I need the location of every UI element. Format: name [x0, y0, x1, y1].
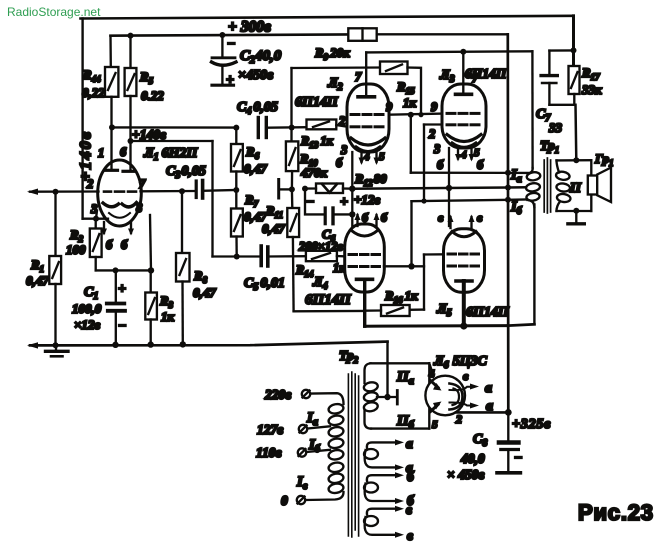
center tap bar	[396, 391, 399, 405]
junction dot R15 drop	[418, 112, 423, 117]
Tr2 primary loop 2	[328, 414, 344, 426]
junction dot Ia tap	[505, 170, 511, 176]
wire R12 left drop	[305, 189, 324, 215]
wire L6 output y=412.4	[456, 411, 508, 414]
svg-text:0,47: 0,47	[193, 285, 216, 300]
junction dot R8 top	[179, 188, 185, 194]
wire L1 cathode corner	[83, 218, 108, 220]
junction dot speaker bottom	[573, 208, 579, 214]
svg-text:+: +	[226, 73, 234, 88]
svg-text:8: 8	[136, 201, 143, 215]
svg-text:0,22: 0,22	[82, 85, 105, 100]
wire L5 grid branch x=424	[423, 255, 425, 310]
junction dot C6 right	[349, 211, 355, 217]
svg-text:33: 33	[548, 120, 563, 135]
L4 anode bar	[357, 277, 373, 281]
svg-text:5: 5	[432, 419, 438, 431]
svg-text:−: −	[118, 319, 126, 334]
Tr2 heater group v bottom arrow	[365, 517, 404, 538]
svg-text:0: 0	[281, 493, 288, 508]
Tr2 HV bottom lead	[365, 410, 372, 429]
wire speaker top y=160.3	[557, 159, 592, 162]
wire speaker right bottom	[590, 195, 592, 212]
L1 pin4 heater arrow	[101, 222, 107, 236]
L4 heater arrow b1	[355, 213, 361, 227]
wire anode bus y=326	[365, 324, 508, 328]
capacitor C2 electrolytic	[212, 35, 237, 85]
L3 anode bar	[456, 52, 472, 95]
junction dot +325v	[505, 409, 512, 416]
tube L3 envelope	[442, 84, 486, 148]
capacitor C7	[541, 51, 557, 105]
L2 grid1 dashes	[351, 113, 383, 116]
resistor R1	[49, 192, 61, 345]
junction dot R17 top node	[571, 47, 577, 53]
svg-text:200×12в: 200×12в	[298, 240, 343, 254]
resistor R5	[125, 36, 137, 141]
svg-text:40,0: 40,0	[460, 451, 485, 466]
Tr1 primary top lead curve	[528, 168, 533, 173]
resistor R6	[231, 128, 243, 190]
svg-text:127в: 127в	[257, 422, 283, 437]
junction dot Tr1 mid tap	[505, 185, 511, 191]
wire L5 grid feed y=254.5	[424, 253, 445, 256]
svg-text:в: в	[477, 211, 483, 225]
junction dot L2 cathode drop	[349, 186, 355, 192]
junction dot R3 top	[148, 267, 154, 273]
svg-text:в: в	[463, 369, 469, 383]
junction dot R10/R11	[289, 186, 295, 192]
L6 heater out bottom arrow	[450, 402, 480, 408]
wire cathode rail y=188	[352, 187, 527, 188]
svg-text:100: 100	[66, 242, 86, 257]
Tr2 heater group b top arrow	[367, 472, 404, 481]
capacitor C8 electrolytic	[497, 412, 520, 472]
capacitor C5	[261, 246, 306, 266]
resistor R2	[90, 219, 102, 271]
wire speaker right top	[590, 160, 592, 176]
Tr2 primary loop 4	[328, 437, 344, 449]
Tr1 secondary coil loop 2	[556, 183, 571, 193]
L2 heater arrow 4	[359, 150, 365, 165]
L2 grid2 dashes	[351, 125, 383, 128]
L4 heater arrow b2	[374, 213, 380, 227]
Tr2 primary loop 1	[328, 403, 344, 415]
wire L2 cathode drop x=352.3	[351, 152, 353, 236]
wire C5 coupling y=256.5	[213, 255, 260, 257]
junction dot L3 anode	[460, 49, 466, 55]
Tr1 primary coil loop 3	[526, 192, 540, 201]
wire Ib drop to L4 grid x=411.5	[410, 201, 412, 266]
svg-text:а: а	[406, 436, 413, 451]
svg-text:0,47: 0,47	[244, 161, 267, 176]
svg-text:470к: 470к	[300, 165, 328, 180]
L4 anode stem	[363, 279, 366, 326]
svg-text:а: а	[485, 381, 492, 396]
svg-text:C30,05: C30,05	[166, 164, 206, 181]
Tr2 primary loop 3	[328, 426, 344, 438]
svg-text:II: II	[569, 181, 581, 196]
Tr2 heater loop b	[364, 483, 378, 493]
resistor R8	[176, 191, 190, 344]
svg-text:б: б	[381, 211, 388, 225]
tube L4 envelope	[345, 224, 385, 292]
svg-text:+140в: +140в	[132, 127, 166, 142]
Tr1 secondary coil loop 1	[556, 171, 571, 181]
L2 heater arrow 5	[374, 150, 380, 165]
svg-text:7: 7	[139, 177, 146, 191]
wire cathode stub to tube	[96, 211, 97, 219]
junction dot R12 left	[302, 186, 308, 192]
svg-text:б: б	[437, 158, 444, 172]
Tr2 primary loop 6	[328, 461, 344, 473]
wire input grid line y=191.5	[30, 190, 99, 193]
Tr1 primary bottom lead curve	[528, 200, 535, 207]
svg-text:1: 1	[98, 146, 104, 160]
wire Ia drop x=410.8	[410, 115, 412, 173]
capacitor C4	[258, 118, 266, 138]
wire screen line y=114.5	[389, 114, 443, 115]
Tr2 heater group a top arrow	[367, 439, 404, 448]
L5 grid1 dashes	[448, 253, 479, 256]
junction dot C1 top	[113, 267, 119, 273]
wire rect box right x=429.3	[428, 363, 430, 428]
L3 cathode arc	[447, 135, 481, 142]
ground symbol at rail	[46, 345, 69, 356]
Tr2 heater group b bottom arrow	[365, 484, 404, 505]
svg-text:220в: 220в	[264, 387, 291, 402]
junction dot Ia drop	[408, 112, 414, 118]
terminal 0	[297, 492, 344, 504]
L6 filament arc outer	[450, 384, 463, 410]
wire L3 grid to corner y=124.5	[424, 123, 443, 125]
junction dot R1 bottom	[53, 342, 59, 348]
svg-text:+: +	[118, 282, 126, 297]
wire pin4 lead	[429, 363, 433, 376]
L3 heater arrow 4	[455, 147, 461, 162]
tube L5 envelope	[444, 229, 485, 293]
wire R9 right to B+ vertical	[377, 33, 508, 35]
terminal 110v tap	[298, 448, 330, 456]
capacitor C6	[325, 208, 352, 224]
Tr2 primary loop 7	[328, 472, 344, 484]
svg-text:6П14П: 6П14П	[466, 305, 510, 320]
resistor R3	[145, 270, 157, 344]
Tr2 primary loop 5	[328, 449, 344, 461]
L5 grid2 dashes	[448, 265, 479, 268]
junction dot pin1 top	[109, 124, 115, 130]
junction dot L3 cathode drop	[446, 185, 452, 191]
wire +140V stub y=141	[131, 140, 213, 142]
junction dot speaker top	[573, 157, 579, 163]
wire R16 riser y=309.6	[410, 308, 424, 311]
L1 pin5 heater arrow	[128, 222, 134, 236]
svg-text:7: 7	[355, 70, 362, 84]
wire HV center tap	[377, 396, 397, 398]
svg-text:0,47: 0,47	[262, 221, 285, 236]
svg-text:3: 3	[340, 143, 347, 157]
junction dot cathode node	[93, 216, 99, 222]
svg-text:+140в: +140в	[78, 130, 95, 181]
L2 anode bar	[358, 52, 375, 96]
svg-text:б: б	[121, 238, 128, 252]
L1 cathode arcs	[103, 203, 137, 207]
resistor R15	[380, 62, 421, 115]
svg-text:6П14П: 6П14П	[305, 292, 352, 308]
Tr1 primary coil loop 2	[526, 182, 541, 192]
wire R17 bottom to Tr1	[574, 105, 577, 161]
wire top feedback line y=17	[81, 16, 574, 19]
svg-text:+: +	[340, 195, 348, 210]
svg-text:R920к: R920к	[314, 45, 350, 62]
svg-text:+325в: +325в	[512, 417, 551, 432]
junction dot L3 grid drop end	[421, 198, 426, 203]
svg-text:в: в	[407, 528, 413, 543]
wire rect box bottom y=428.6	[371, 427, 429, 429]
junction dot R6 top	[233, 125, 239, 131]
svg-text:×12в: ×12в	[74, 317, 100, 332]
junction dot R1 top	[53, 189, 59, 195]
wire R10 top feed	[290, 68, 292, 141]
L6 anode arrow bottom lead	[431, 405, 439, 412]
svg-text:+12в: +12в	[354, 192, 380, 207]
wire Ib line y=200	[412, 200, 528, 202]
svg-text:9: 9	[431, 100, 438, 114]
Tr2 HV loop IIa-2	[363, 391, 378, 402]
svg-text:б: б	[362, 211, 369, 225]
L5 anode stem	[462, 281, 466, 326]
wire B+ long vertical x=508	[506, 34, 509, 412]
wire grid-B to C3	[141, 190, 195, 193]
wire phase-2 drop x=212.5	[211, 141, 213, 257]
svg-text:б: б	[477, 158, 484, 172]
L1 anode B bar	[123, 141, 135, 171]
svg-text:в: в	[406, 502, 412, 517]
junction dot L4 grid node	[408, 263, 414, 269]
wire Ia line y=172.7	[411, 172, 528, 175]
junction dot L5 anode	[460, 322, 467, 329]
resistor R13	[307, 120, 348, 130]
svg-text:б: б	[106, 238, 113, 252]
wire speaker bottom y=211	[557, 210, 592, 212]
svg-text:33к: 33к	[581, 82, 602, 97]
wire anode drop to Tr1 top x=532.4	[531, 51, 534, 168]
L2 cathode arc	[351, 138, 385, 145]
svg-text:б: б	[336, 156, 343, 170]
resistor R11	[287, 189, 299, 311]
L6 anode arrow top lead	[431, 381, 439, 388]
L5 anode bar	[456, 279, 472, 283]
svg-text:в: в	[438, 211, 444, 225]
junction dot R6/R7	[233, 187, 239, 193]
svg-text:2: 2	[455, 412, 462, 426]
svg-text:100,0: 100,0	[72, 301, 102, 316]
Tr1 secondary coil loop 3	[556, 193, 571, 203]
L6 filament arc inner	[453, 389, 460, 406]
terminal 127v tap	[299, 425, 330, 433]
L5 heater arrow v1	[448, 215, 454, 229]
Tr2 heater loop a	[364, 449, 378, 459]
wire anode-A line y=127.5	[112, 126, 236, 129]
Tr1 primary coil loop 1	[526, 171, 541, 181]
resistor R44	[105, 36, 118, 128]
svg-text:6П14П: 6П14П	[465, 66, 507, 81]
wire L3 grid drop x=424	[423, 125, 425, 202]
L3 heater arrow 5	[469, 147, 475, 162]
Tr2 heater loop v	[364, 516, 378, 526]
L1 anode A bar	[106, 127, 118, 170]
Tr1 secondary bottom lead	[557, 202, 561, 212]
svg-text:Рис.23: Рис.23	[578, 500, 654, 525]
junction dot R5 bottom	[128, 138, 134, 144]
svg-text:110в: 110в	[256, 445, 282, 460]
svg-text:5: 5	[379, 151, 385, 163]
junction dot R10 top line	[289, 125, 295, 131]
Tr2 heater group v top arrow	[367, 506, 404, 515]
capacitor C1 electrolytic	[107, 270, 125, 344]
svg-text:6: 6	[120, 145, 127, 159]
svg-text:−: −	[514, 451, 522, 466]
grid-tap bar node	[279, 180, 292, 199]
svg-text:C50,01: C50,01	[244, 276, 285, 293]
L6 anode arrow bottom	[433, 402, 442, 410]
svg-text:Л65Ц3С: Л65Ц3С	[433, 354, 487, 371]
wire +300V rail y=35	[111, 34, 349, 35]
wire L3 cathode drop x=449	[448, 148, 450, 226]
wire anode line L2/L3 y=52	[366, 51, 532, 52]
svg-text:2: 2	[86, 177, 93, 191]
input arrow left	[27, 189, 38, 195]
svg-text:2: 2	[338, 114, 345, 128]
L3 grid1 dashes	[447, 112, 479, 115]
capacitor C3	[196, 181, 236, 199]
svg-text:× 450в: × 450в	[447, 467, 484, 482]
potentiometer R12	[305, 184, 352, 194]
svg-text:+ 300в: + 300в	[228, 19, 271, 36]
resistor R9	[348, 28, 376, 41]
wire anode bus right seg	[508, 324, 534, 325]
junction dot center tap	[384, 394, 390, 400]
junction dot C1 bottom	[112, 342, 118, 348]
resistor R10	[286, 141, 298, 189]
resistor R7	[231, 190, 243, 257]
junction dot Ib tap	[505, 197, 511, 203]
Tr2 primary loop 8	[328, 482, 344, 494]
wire grid-return y=311.3	[294, 310, 365, 313]
wire rail drop to Tr2 tap x=387.5	[386, 342, 388, 397]
svg-text:C240,0: C240,0	[240, 48, 282, 66]
svg-text:1к: 1к	[161, 309, 175, 324]
resistor R17	[569, 66, 580, 105]
wire pin8 drop x=151	[150, 215, 151, 270]
Tr2 heater group a bottom arrow	[365, 450, 404, 470]
Tr1 secondary top lead	[557, 160, 560, 172]
svg-text:−: −	[227, 37, 235, 52]
L4 cathode arc top	[352, 231, 378, 237]
tube L1 6N2P envelope	[98, 160, 142, 226]
resistor R16	[365, 305, 410, 316]
L4 grid1 dashes	[349, 253, 380, 256]
wire rect box top y=363.3	[371, 362, 430, 364]
L6 anode arrow top	[433, 383, 442, 391]
Tr2 HV loop IIa-1	[363, 381, 378, 392]
junction dot R3 bottom	[148, 341, 154, 347]
svg-text:−: −	[306, 195, 314, 210]
wire left feedback vertical x=82.6	[81, 19, 83, 219]
wire C4 to R13 y=127.7	[268, 126, 306, 129]
wire Tr1 primary bottom riser x=534.4	[533, 205, 535, 325]
ground at speaker	[568, 211, 584, 224]
wire top corner drop x=573.5	[572, 16, 575, 66]
svg-text:3: 3	[433, 142, 440, 156]
wire L4 grid right y=266.3	[384, 265, 424, 267]
speaker Gr	[588, 168, 611, 203]
junction dot R7 bottom	[234, 254, 240, 260]
svg-text:×450в: ×450в	[238, 68, 274, 83]
L6 heater out top arrow	[450, 384, 480, 391]
terminal 220v	[302, 390, 344, 404]
wire main ground rail	[30, 342, 388, 346]
L5 cathode arc top	[452, 232, 476, 237]
L4 grid2 dashes	[349, 265, 380, 268]
svg-text:Л16Н2П: Л16Н2П	[143, 146, 198, 163]
svg-text:C40,05: C40,05	[237, 100, 278, 117]
svg-text:4: 4	[460, 149, 467, 161]
Tr2 core lines	[348, 372, 358, 537]
svg-text:1к: 1к	[403, 95, 417, 110]
svg-text:0.22: 0.22	[141, 88, 164, 103]
junction dot C2 top	[219, 32, 225, 38]
junction dot R8 bottom	[180, 341, 186, 347]
resistor R14	[306, 251, 346, 261]
wire cathode bias y=270.4	[96, 269, 151, 271]
tube L6 envelope	[425, 376, 465, 416]
tube L2 envelope	[347, 84, 389, 152]
svg-text:0,47: 0,47	[26, 273, 49, 288]
junction dot R5 top	[128, 33, 134, 39]
L1 grid dashes	[104, 190, 136, 193]
wire C7 top stub	[549, 49, 573, 52]
svg-text:6П14П: 6П14П	[295, 95, 339, 110]
Tr1 core lines	[544, 158, 550, 213]
svg-text:4: 4	[363, 151, 370, 163]
rail arrow left	[27, 342, 38, 348]
svg-text:2: 2	[428, 127, 435, 141]
Tr2 HV secondary top lead	[365, 363, 371, 383]
wire C7/R17 bottom join	[549, 104, 574, 106]
svg-text:RadioStorage.net: RadioStorage.net	[7, 5, 101, 19]
Tr2 HV loop IIa-3	[363, 401, 378, 412]
wire R15 left feed y=68	[292, 66, 381, 69]
svg-text:9: 9	[386, 100, 393, 114]
L3 grid2 dashes	[447, 123, 479, 126]
L5 heater arrow v2	[469, 215, 475, 229]
L1 heater loop	[109, 213, 130, 218]
